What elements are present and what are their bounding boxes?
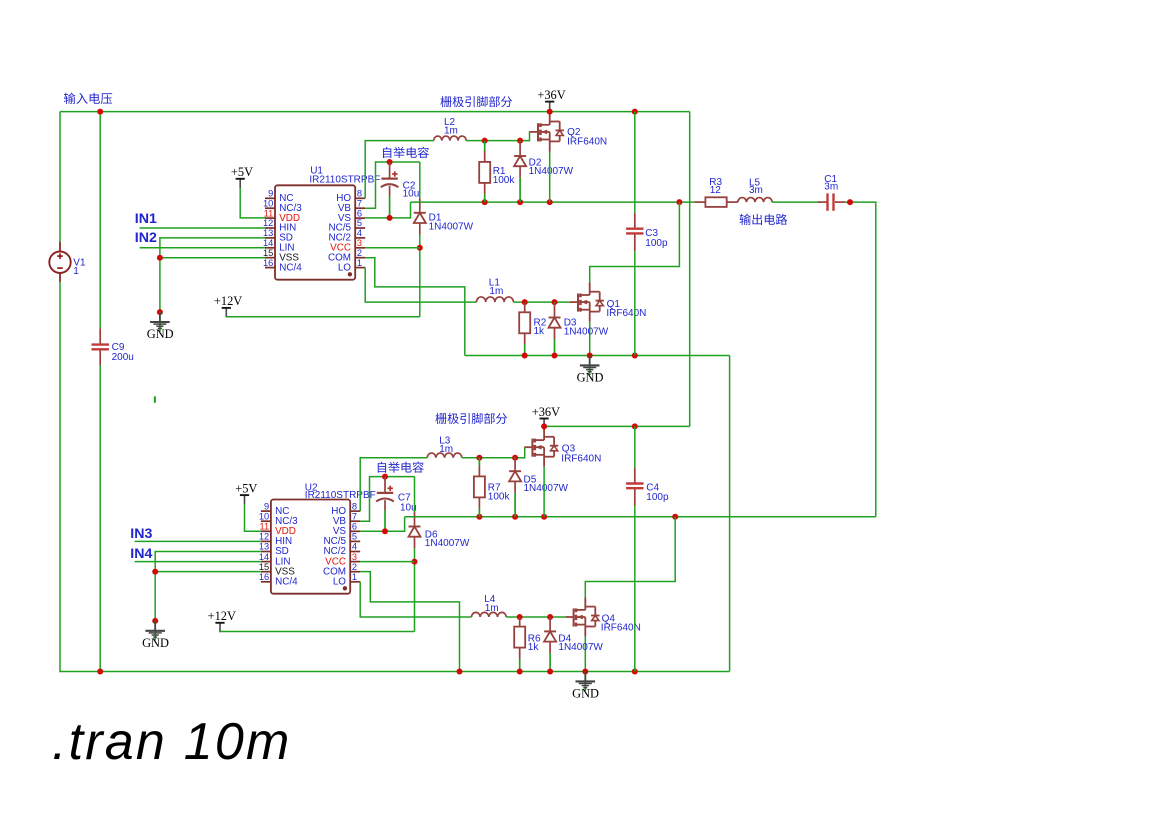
resistor R6 1k	[514, 617, 525, 672]
power +5V (top)	[231, 165, 253, 188]
svg-text:100k: 100k	[493, 175, 516, 186]
junction C2 bottom	[387, 215, 393, 221]
junction SD/VSS net	[157, 255, 163, 261]
svg-text:6: 6	[357, 208, 362, 218]
Q1 drain pin	[589, 283, 591, 295]
Q2 labels	[567, 127, 607, 148]
wire U2 HO up to L3	[360, 458, 427, 511]
transistor Q1 IRF640N	[570, 283, 604, 322]
svg-text:1k: 1k	[528, 642, 540, 653]
junction COM at bottom rail	[457, 669, 463, 675]
net label 输入电压 (input voltage)	[64, 93, 112, 104]
junction D5 top	[512, 455, 518, 461]
diode D2 1N4007W	[514, 141, 526, 203]
svg-text:LO: LO	[333, 577, 346, 588]
wire U2 LO to L4	[360, 582, 471, 617]
resistor R7 100k	[474, 458, 485, 517]
power +36V (top)	[537, 88, 565, 111]
wire output node down to lower bridge	[845, 202, 876, 517]
voltage source V1	[49, 242, 70, 282]
diode D6 1N4007W (bootstrap)	[409, 512, 421, 548]
svg-text:4: 4	[352, 542, 357, 552]
inductor L2	[434, 136, 466, 141]
svg-text:+12V: +12V	[214, 294, 242, 308]
wire U1 COM to GND rail	[365, 258, 465, 356]
wire +12V to D1 anode	[226, 316, 419, 318]
svg-text:IN2: IN2	[135, 230, 157, 246]
wire C3 upper lead from +36V rail	[634, 112, 636, 214]
op-amp U1 IR2110STRPBF gate driver	[263, 166, 380, 280]
svg-text:16: 16	[263, 258, 273, 268]
svg-text:15: 15	[259, 562, 269, 572]
transistor Q4 IRF640N	[566, 598, 600, 637]
junction R2 bottom	[522, 353, 528, 359]
V1 labels	[73, 257, 86, 277]
svg-text:IN1: IN1	[135, 211, 157, 227]
D5 labels	[524, 474, 569, 493]
ground GND (bottom bridge)	[572, 672, 599, 701]
junction C9 top	[97, 109, 103, 115]
capacitor C7 10u (polarized)	[376, 486, 394, 502]
junction Q4 drain branch	[672, 514, 678, 520]
inductor L3	[427, 453, 462, 458]
wire C3 lower lead to GND rail	[634, 251, 636, 355]
op-amp U2 IR2110STRPBF gate driver	[259, 483, 376, 594]
svg-text:12: 12	[259, 532, 269, 542]
junction C4 top	[632, 423, 638, 429]
svg-text:6: 6	[352, 522, 357, 532]
junction C7 bottom	[382, 528, 388, 534]
junction D3 bottom	[552, 353, 558, 359]
transistor Q3 IRF640N	[524, 428, 558, 467]
C3 lead upper brown	[634, 213, 636, 229]
svg-text:11: 11	[260, 522, 270, 532]
power +36V (bottom)	[532, 405, 560, 428]
Q4 drain pin	[584, 598, 586, 610]
net label 输出电路 (output circuit)	[740, 214, 788, 225]
wire U2 VCC to D6	[360, 561, 414, 563]
wire U2 VB to bootstrap top	[360, 477, 414, 522]
svg-text:.tran 10m: .tran 10m	[52, 713, 291, 771]
junction R6 bottom	[517, 669, 523, 675]
svg-text:IRF640N: IRF640N	[567, 137, 607, 148]
D2 labels	[529, 157, 574, 177]
junction D4 top	[547, 614, 553, 620]
R6 labels	[528, 633, 541, 652]
D6 labels	[425, 530, 470, 549]
svg-text:10: 10	[259, 511, 269, 521]
svg-text:1N4007W: 1N4007W	[425, 538, 470, 549]
svg-text:1N4007W: 1N4007W	[429, 222, 474, 233]
wire left border lower / bottom GND rail	[60, 282, 730, 672]
wire +36V top rail	[60, 111, 690, 113]
net label 栅极引脚部分 (gate pin section, top)	[440, 96, 512, 107]
wire D6 cathode up	[414, 477, 416, 512]
C9 leads	[99, 328, 101, 365]
svg-text:IN4: IN4	[130, 546, 152, 562]
junction +36V / Q3 drain	[541, 423, 547, 429]
wire IN2 to U1 LIN	[140, 247, 266, 249]
wire U2 VSS to GND net	[155, 571, 261, 573]
svg-text:13: 13	[263, 228, 273, 238]
wire L4 to Q4 gate	[506, 616, 565, 618]
R3 labels	[709, 177, 722, 196]
svg-text:1: 1	[73, 266, 79, 277]
svg-text:LO: LO	[338, 262, 351, 273]
C7 labels	[398, 492, 417, 513]
svg-text:1m: 1m	[444, 126, 458, 137]
wire L1 to Q1 gate	[513, 301, 570, 303]
svg-text:IRF640N: IRF640N	[606, 308, 646, 319]
R1 labels	[493, 166, 516, 186]
C4 lead lower	[634, 489, 636, 506]
svg-text:1k: 1k	[534, 326, 546, 337]
net label 自举电容 (bootstrap cap, bottom)	[378, 462, 424, 473]
junction Q2 source	[547, 199, 553, 205]
junction R6 top	[517, 614, 523, 620]
L4 labels	[484, 594, 498, 614]
C3 labels	[645, 228, 668, 249]
diode D5 1N4007W	[509, 457, 521, 517]
svg-text:1: 1	[357, 258, 362, 268]
svg-text:10u: 10u	[403, 189, 420, 200]
junction D2 bottom	[517, 199, 523, 205]
svg-text:5: 5	[357, 218, 362, 228]
svg-text:1m: 1m	[439, 444, 453, 455]
svg-text:13: 13	[259, 542, 269, 552]
wire +5V to U2 VDD	[245, 505, 261, 532]
wire U2 COM to GND rail	[360, 572, 459, 672]
wire IN4 to U2 LIN	[135, 561, 261, 563]
svg-text:15: 15	[263, 248, 273, 258]
power +12V (bottom)	[208, 609, 236, 632]
L3 labels	[439, 435, 453, 455]
junction D4 bottom	[547, 669, 553, 675]
D4 labels	[558, 633, 603, 652]
R2 labels	[534, 318, 547, 337]
junction C2 top	[387, 159, 393, 165]
inductor L4	[472, 612, 507, 617]
svg-text:IR2110STRPBF: IR2110STRPBF	[309, 175, 380, 186]
capacitor C4 100p	[626, 484, 643, 489]
svg-text:3m: 3m	[824, 181, 838, 192]
wire Q4 source to GND rail	[584, 637, 586, 672]
junction at GND symbol (bottom logic)	[152, 618, 158, 624]
Q4 labels	[601, 613, 641, 633]
wire stub (stray segment)	[154, 396, 156, 402]
wire switch-node rail (bottom bridge)	[405, 516, 876, 518]
junction Q1 source / GND	[587, 353, 593, 359]
transistor Q2 IRF640N	[530, 112, 564, 151]
junction C9 bottom	[97, 669, 103, 675]
junction C7 top	[382, 474, 388, 480]
wire U1 SD down to GND	[160, 238, 265, 312]
svg-text:NC/4: NC/4	[275, 577, 298, 588]
C4 labels	[646, 482, 669, 503]
power +12V (top)	[214, 294, 242, 317]
Q1 labels	[606, 299, 646, 319]
wire U1 VSS to GND net	[160, 257, 265, 259]
junction D1/VCC	[417, 245, 423, 251]
wire Q3 drain to +36V rail	[543, 426, 545, 427]
wire Q4 drain branch	[585, 517, 675, 598]
junction C4 bottom	[632, 669, 638, 675]
svg-text:GND: GND	[577, 370, 604, 384]
diode D1 1N4007W (bootstrap)	[414, 198, 426, 234]
svg-text:100p: 100p	[645, 238, 668, 249]
svg-text:3: 3	[357, 238, 362, 248]
ground GND (top bridge)	[577, 356, 604, 385]
wire L5 to C1	[772, 201, 818, 203]
D1 labels	[429, 212, 474, 232]
capacitor C3 100p	[626, 229, 643, 234]
D3 labels	[564, 318, 609, 338]
wire IN1 to U1 HIN	[140, 227, 266, 229]
ground GND (U1 logic)	[147, 312, 174, 341]
C2 labels	[403, 181, 420, 200]
wire switch-node rail (top bridge)	[411, 201, 695, 203]
junction SD/VSS net (bottom)	[152, 569, 158, 575]
resistor R1 100k	[479, 141, 490, 203]
L5 labels	[749, 177, 763, 195]
svg-text:1N4007W: 1N4007W	[558, 642, 603, 653]
junction output node	[847, 199, 853, 205]
svg-text:11: 11	[264, 208, 274, 218]
wire +12V to D6 anode	[220, 631, 415, 633]
svg-text:1: 1	[352, 572, 357, 582]
svg-text:GND: GND	[572, 686, 599, 700]
wire C9 branch upper	[99, 112, 101, 329]
L2 labels	[444, 117, 458, 137]
junction R1 bottom	[482, 199, 488, 205]
junction D2 top	[517, 138, 523, 144]
junction R7 top	[476, 455, 482, 461]
C3 lead lower	[634, 234, 636, 251]
svg-text:1N4007W: 1N4007W	[564, 326, 609, 337]
wire U1 VB to bootstrap top	[365, 162, 420, 208]
junction Q4 source / GND	[582, 669, 588, 675]
svg-text:4: 4	[357, 228, 362, 238]
svg-text:16: 16	[259, 572, 269, 582]
net label 自举电容 (bootstrap cap, top)	[383, 147, 429, 158]
wire +36V drop to lower section	[689, 112, 691, 427]
svg-text:IRF640N: IRF640N	[561, 453, 601, 464]
wire Q2 drain to +36V rail	[549, 111, 551, 114]
svg-text:8: 8	[352, 501, 357, 511]
wire U1 VS to switch-node rail	[365, 202, 410, 218]
wire GND drop right	[729, 356, 731, 672]
svg-text:2: 2	[352, 562, 357, 572]
junction R1 top	[482, 138, 488, 144]
svg-text:+36V: +36V	[532, 405, 560, 419]
junction C3 top	[632, 109, 638, 115]
svg-text:12: 12	[710, 185, 722, 196]
wire U1 HO up to L2	[365, 141, 434, 199]
junction at GND symbol (top)	[157, 309, 163, 315]
junction C3 bottom	[632, 353, 638, 359]
wire +5V to U1 VDD	[240, 188, 265, 218]
wire U1 VCC to D1	[365, 247, 420, 249]
svg-text:+36V: +36V	[537, 88, 565, 102]
wire Q1 drain branch	[590, 202, 680, 283]
svg-text:1m: 1m	[489, 286, 503, 297]
svg-text:+5V: +5V	[231, 165, 253, 179]
capacitor C1 3m	[828, 193, 834, 210]
junction Q3 source	[541, 514, 547, 520]
net label 栅极引脚部分 (gate pin section, bottom)	[435, 413, 507, 424]
svg-text:IN3: IN3	[130, 526, 152, 542]
power +5V (bottom)	[235, 481, 257, 504]
capacitor C2 10u (polarized)	[381, 171, 399, 187]
svg-text:5: 5	[352, 532, 357, 542]
svg-text:10: 10	[263, 198, 273, 208]
svg-text:7: 7	[357, 198, 362, 208]
C1 leads	[818, 201, 845, 203]
junction D5 bottom	[512, 514, 518, 520]
diode D4 1N4007W	[544, 617, 556, 672]
svg-text:12: 12	[263, 218, 273, 228]
svg-text:2: 2	[357, 248, 362, 258]
resistor R2 1k	[519, 302, 530, 355]
svg-text:9: 9	[264, 501, 269, 511]
svg-text:+5V: +5V	[235, 481, 257, 495]
junction D6/VCC	[412, 559, 418, 565]
svg-text:14: 14	[259, 552, 269, 562]
wire left border upper (V1 top)	[59, 112, 61, 243]
wire IN3 to U2 HIN	[135, 540, 261, 542]
junction R2 top	[522, 299, 528, 305]
junction +36V / Q2 drain	[547, 109, 553, 115]
svg-text:1m: 1m	[485, 603, 499, 614]
wire Q1 source to GND rail	[589, 322, 591, 356]
ground GND (U2 logic)	[142, 621, 169, 650]
svg-text:200u: 200u	[112, 352, 134, 363]
L1 labels	[489, 278, 504, 297]
C7 leads	[384, 477, 386, 532]
svg-text:1N4007W: 1N4007W	[529, 166, 574, 177]
svg-text:8: 8	[357, 189, 362, 199]
svg-text:9: 9	[268, 189, 273, 199]
wire GND rail (top)	[465, 355, 730, 357]
diode D3 1N4007W	[549, 302, 561, 355]
wire +36V rail (bottom)	[544, 425, 690, 427]
C4 lead upper brown	[634, 468, 636, 484]
svg-text:100p: 100p	[646, 492, 669, 503]
wire C4 upper lead	[634, 426, 636, 467]
wire D1 anode down to +12V	[419, 234, 421, 316]
C2 leads	[389, 162, 391, 218]
capacitor C9	[92, 345, 109, 350]
svg-text:+12V: +12V	[208, 609, 236, 623]
wire L2 to Q2 gate	[466, 132, 530, 141]
inductor L1	[477, 297, 514, 302]
wire U2 VS to switch-node rail (bottom)	[360, 517, 404, 532]
svg-text:1N4007W: 1N4007W	[524, 483, 569, 494]
wire C9 branch lower	[99, 366, 101, 672]
C9 labels	[112, 342, 134, 363]
svg-text:GND: GND	[147, 327, 174, 341]
wire Q2 source to switch node	[549, 152, 551, 203]
svg-text:IR2110STRPBF: IR2110STRPBF	[305, 490, 376, 501]
svg-text:100k: 100k	[488, 492, 511, 503]
svg-text:3: 3	[352, 552, 357, 562]
wire U1 LO to L1	[365, 268, 476, 303]
wire D6 anode down to +12V	[414, 548, 416, 631]
wire L3 to Q3 gate	[462, 447, 525, 458]
svg-text:GND: GND	[142, 636, 169, 650]
junction D3 top	[552, 299, 558, 305]
R7 labels	[488, 483, 511, 503]
svg-text:7: 7	[352, 511, 357, 521]
svg-text:14: 14	[263, 238, 273, 248]
inductor L5 3m	[738, 198, 772, 203]
junction Q1 drain branch	[676, 199, 682, 205]
C1 labels	[824, 174, 838, 192]
svg-text:3m: 3m	[749, 185, 763, 196]
junction R7 bottom	[476, 514, 482, 520]
svg-text:NC/4: NC/4	[279, 262, 302, 273]
wire C4 lower lead to bottom rail	[634, 506, 636, 672]
wire D1 cathode up	[419, 162, 421, 198]
wire Q3 source to switch node	[543, 467, 545, 517]
Q3 labels	[561, 444, 601, 465]
resistor R3 12	[694, 197, 738, 207]
wire U2 SD down to GND	[155, 552, 261, 621]
